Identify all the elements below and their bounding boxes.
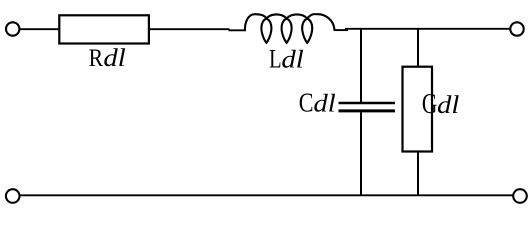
svg-text:dl: dl: [437, 91, 459, 119]
wire conductance branch upper: [417, 28, 419, 67]
wire jog before inductor: [229, 29, 247, 31]
conductance G1 box: [403, 67, 433, 152]
capacitor C1 bottom plate: [339, 109, 396, 112]
label G dl: [422, 90, 459, 120]
wire top-left terminal to resistor: [20, 28, 59, 30]
terminal bottom-right: [513, 189, 527, 203]
svg-text:R: R: [89, 45, 104, 73]
wire capacitor branch upper: [360, 28, 362, 103]
wire top rail to right terminal: [345, 28, 510, 30]
wire resistor to inductor: [149, 28, 230, 30]
label C dl: [299, 89, 336, 119]
terminal top-right: [510, 22, 523, 35]
svg-text:dl: dl: [281, 45, 303, 73]
capacitor C1 top plate: [339, 102, 396, 104]
wire inductor exit: [334, 29, 348, 31]
wire capacitor branch lower: [360, 112, 362, 196]
wire conductance branch lower: [417, 151, 419, 196]
terminal top-left: [6, 22, 19, 35]
label L dl: [269, 45, 304, 74]
svg-text:dl: dl: [103, 44, 125, 72]
svg-text:dl: dl: [313, 89, 335, 117]
svg-text:L: L: [269, 45, 282, 74]
svg-text:C: C: [299, 89, 314, 119]
inductor L1 coil: [245, 14, 335, 43]
resistor R1 box: [59, 15, 149, 43]
terminal bottom-left: [6, 189, 20, 203]
bottom rail wire: [20, 194, 513, 196]
label R dl: [89, 44, 126, 73]
svg-text:G: G: [422, 90, 437, 120]
